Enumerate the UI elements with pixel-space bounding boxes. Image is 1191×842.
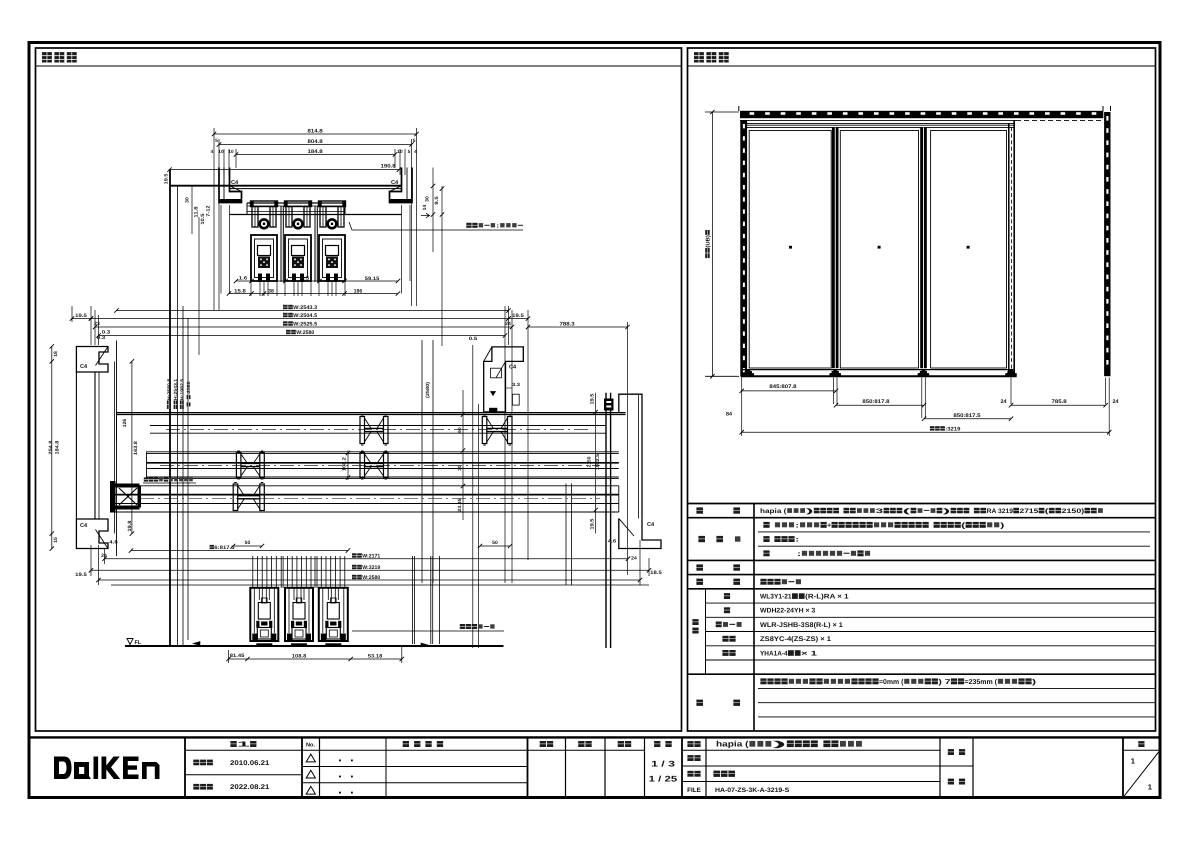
svg-text:6:817.5: 6:817.5 xyxy=(214,545,235,551)
svg-text:186: 186 xyxy=(354,288,363,294)
middle: bottom dim 817.5 xyxy=(131,550,348,552)
svg-text:163.8: 163.8 xyxy=(133,441,139,455)
DAIKEN logo letter i xyxy=(94,757,99,780)
svg-text:): ) xyxy=(943,508,951,515)
svg-text:C4: C4 xyxy=(647,522,655,528)
svg-text:850:817.5: 850:817.5 xyxy=(953,413,980,419)
front view: door panel 1 inner border xyxy=(749,131,831,369)
title: page field xyxy=(1138,741,1144,747)
title block top border xyxy=(29,736,1160,738)
middle: hanger bowtie bar2 left xyxy=(236,453,241,478)
front view: rail white dash marks xyxy=(750,112,755,115)
svg-text:(UB): (UB) xyxy=(705,235,711,248)
svg-text:No.: No. xyxy=(306,743,315,749)
svg-text:ZS8YC-4(ZS-ZS) × 1: ZS8YC-4(ZS-ZS) × 1 xyxy=(760,636,831,643)
middle: bottom dim extension verticals xyxy=(90,545,92,576)
svg-text::: : xyxy=(797,551,801,558)
svg-text:): ) xyxy=(1032,678,1036,686)
svg-text:59.15: 59.15 xyxy=(365,276,380,282)
top assembly: trolley 3 side rollers xyxy=(320,207,326,228)
top assembly: dim 190.8 xyxy=(170,169,400,171)
top assembly: hanger trolley 3 top plate xyxy=(319,201,346,207)
svg-text:804.8: 804.8 xyxy=(308,139,323,145)
middle: bottom small dims 50 xyxy=(233,545,262,547)
spec table row: finish door panel xyxy=(763,522,769,528)
top assembly: trolley 1 center wheel xyxy=(260,219,269,228)
svg-text:126: 126 xyxy=(122,418,128,427)
svg-text:788.3: 788.3 xyxy=(560,321,575,327)
top assembly: gap lines between doors xyxy=(280,206,282,282)
svg-text:5: 5 xyxy=(215,138,218,144)
DAIKEN logo letter D xyxy=(54,757,72,780)
svg-text:W:2171: W:2171 xyxy=(362,553,380,559)
front view: door pull panel2 xyxy=(878,246,881,249)
front view: dim 845:807.8 xyxy=(742,390,836,392)
svg-text:19.5: 19.5 xyxy=(590,518,596,529)
bottom assembly: floor guide unit 1 xyxy=(250,588,278,641)
svg-text::3219: :3219 xyxy=(945,426,960,432)
middle: far right jamb profile xyxy=(619,394,642,518)
svg-text:60: 60 xyxy=(457,427,462,433)
svg-text:785.8: 785.8 xyxy=(1052,399,1067,405)
top assembly: door 3 bottom feet xyxy=(326,274,330,283)
middle: door end pull-in cap (black detail) xyxy=(110,481,116,513)
svg-text:0.5: 0.5 xyxy=(469,336,478,342)
svg-text:WDH22-24YH × 3: WDH22-24YH × 3 xyxy=(760,608,815,615)
top assembly: head channel lines xyxy=(170,185,402,187)
middle: left outer vertical dim xyxy=(51,346,53,548)
middle: door panel C plan lines xyxy=(111,485,619,487)
front view: overall width dim 3219 xyxy=(742,431,1109,433)
spec table row: remarks xyxy=(760,678,766,684)
svg-text:850:817.8: 850:817.8 xyxy=(862,399,889,405)
svg-text:4: 4 xyxy=(414,149,417,154)
svg-text:24: 24 xyxy=(1001,399,1007,405)
svg-text:7-12: 7-12 xyxy=(206,205,212,216)
top assembly: right side vertical dims xyxy=(432,168,434,253)
bottom assembly: floor guide unit 3 xyxy=(319,588,348,641)
middle: pocket leg extension verticals down to floor dims xyxy=(472,345,474,648)
top assembly: door 1 lower stem lines xyxy=(250,281,252,296)
front view: dim 850:817.5 xyxy=(924,418,1011,420)
svg-text:FILE: FILE xyxy=(687,787,702,794)
svg-text:0.3: 0.3 xyxy=(102,330,111,336)
spec table row: finish lighting xyxy=(763,536,769,542)
title: kaitei date xyxy=(193,784,199,790)
svg-text:108.8: 108.8 xyxy=(292,653,307,659)
svg-text:2150): 2150) xyxy=(1062,508,1085,515)
svg-text:18.5: 18.5 xyxy=(650,570,662,576)
svg-text:19.5: 19.5 xyxy=(75,572,87,578)
top assembly: trolley 2 side rollers xyxy=(286,207,292,228)
left panel title bar line xyxy=(36,65,682,67)
svg-text:19.8: 19.8 xyxy=(127,520,133,531)
title: mitsumori field xyxy=(687,755,693,761)
middle: door panel A plan lines xyxy=(150,425,606,427)
svg-text:C4: C4 xyxy=(80,364,88,370)
svg-text:): ) xyxy=(773,740,789,749)
title: department field xyxy=(948,779,954,785)
svg-text:2150: 2150 xyxy=(587,456,592,467)
spec table label column divider xyxy=(753,504,755,732)
leader: hanging door rail silver xyxy=(349,222,523,230)
DAIKEN logo letter K xyxy=(102,757,121,780)
spec table hinban sub column divider xyxy=(705,589,707,674)
svg-text:H:1982.5: H:1982.5 xyxy=(180,378,185,400)
middle: stacked top width dims xyxy=(117,310,509,312)
svg-text:845:807.8: 845:807.8 xyxy=(769,384,796,390)
top assembly: dim extension verticals xyxy=(213,128,215,310)
svg-text:254.8: 254.8 xyxy=(48,440,54,454)
svg-text:5: 5 xyxy=(413,138,416,144)
svg-text:1.6: 1.6 xyxy=(239,276,248,282)
svg-text:19.5: 19.5 xyxy=(75,313,87,319)
top assembly: trolley 1 side rollers xyxy=(252,207,258,228)
label SECTION (danmenzu) xyxy=(42,52,52,62)
svg-text:=235mm (: =235mm ( xyxy=(965,678,998,686)
svg-text:1: 1 xyxy=(237,740,250,749)
top assembly: lower dim row 1 xyxy=(236,280,398,282)
svg-text:1 / 25: 1 / 25 xyxy=(649,775,678,784)
top assembly: left wall profile C4 xyxy=(219,168,242,203)
svg-text:C4: C4 xyxy=(509,365,517,371)
middle: hanger bowtie bar1 right xyxy=(482,417,487,444)
svg-text:C4: C4 xyxy=(80,523,88,529)
front view: dim 850:817.8 xyxy=(836,404,924,406)
bottom assembly: floor guide unit 2 xyxy=(285,588,313,641)
svg-text:19.5: 19.5 xyxy=(590,393,596,404)
front view: door pull panel1 xyxy=(789,246,792,249)
middle: door panel B plan lines xyxy=(147,451,619,453)
middle: bottom stacked width dims xyxy=(105,558,629,560)
label FRONT (shoumenzu) xyxy=(694,52,704,62)
svg-text:W:3219: W:3219 xyxy=(362,565,380,571)
svg-text:15: 15 xyxy=(53,537,59,543)
svg-text:WLR-JSHB-3S8(R-L) × 1: WLR-JSHB-3S8(R-L) × 1 xyxy=(760,622,843,629)
svg-text:4.6: 4.6 xyxy=(608,539,617,545)
svg-text:0.3: 0.3 xyxy=(97,335,106,341)
middle: right mid vertical refs xyxy=(421,340,423,583)
svg-text::2580: :2580 xyxy=(186,381,191,395)
top assembly: dim 804.8 with 5 labels xyxy=(219,144,412,146)
svg-text:2010.06.21: 2010.06.21 xyxy=(230,760,270,767)
title: revision history header xyxy=(403,741,409,747)
top assembly: hanger rail band xyxy=(247,202,345,204)
middle: hanger bowtie bar2 mid xyxy=(360,453,365,478)
svg-text:190.8: 190.8 xyxy=(381,163,396,169)
front view: left height dimension line xyxy=(705,111,739,113)
top assembly: right wall profile C4 xyxy=(390,168,413,203)
middle: inner vertical dim 163.8 xyxy=(131,361,133,533)
middle: pocket vertical rails xyxy=(605,393,607,648)
svg-text:FL: FL xyxy=(135,640,142,646)
svg-text:YHA1A-4: YHA1A-4 xyxy=(760,650,788,657)
bottom assembly: small arrows on FL xyxy=(193,642,200,646)
top assembly: left side rotated labels xyxy=(185,197,191,203)
bottom assembly: reference line above floor rail xyxy=(111,584,649,586)
top assembly: door 2 bottom feet xyxy=(292,274,296,283)
svg-text:14: 14 xyxy=(422,204,428,210)
svg-text:2022.08.21: 2022.08.21 xyxy=(230,784,270,791)
front view: pocket stile white dash marks xyxy=(1106,116,1108,121)
middle: small vertical dim 60/30 xyxy=(462,390,464,520)
svg-text:814.8: 814.8 xyxy=(308,128,323,134)
svg-text:): ) xyxy=(1000,521,1004,529)
svg-text:30: 30 xyxy=(425,196,431,202)
svg-text:H:2580.8: H:2580.8 xyxy=(167,378,172,400)
top assembly: door 3 lower stem lines xyxy=(318,281,320,296)
front view: dim 785.8 and 24 labels xyxy=(1011,404,1106,406)
front view: door panel 3 inner border xyxy=(931,131,1007,369)
svg-text:24: 24 xyxy=(1113,399,1119,405)
svg-text:W:2580: W:2580 xyxy=(362,575,380,581)
right view panel frame xyxy=(688,48,1156,731)
front view: door pull panel3 xyxy=(967,246,970,249)
top assembly: door top section 1 xyxy=(251,235,277,281)
svg-text:) 7: ) 7 xyxy=(938,678,950,686)
spec table row: parts bottom rail xyxy=(760,579,766,585)
svg-text::: : xyxy=(496,224,500,230)
svg-text:5: 5 xyxy=(408,149,411,154)
svg-text:18: 18 xyxy=(53,351,59,357)
title: author field xyxy=(948,749,954,755)
front view: left stile of door group (black with white dashes) xyxy=(740,120,747,376)
svg-text:3: 3 xyxy=(876,508,884,515)
front view: meeting stile mullion 1 xyxy=(832,127,839,368)
svg-text:4: 4 xyxy=(211,149,214,154)
spec table row lines xyxy=(688,517,1156,519)
title: revision triangles xyxy=(306,754,315,762)
svg-text:RA 3219: RA 3219 xyxy=(987,508,1014,515)
svg-text:6.5: 6.5 xyxy=(301,276,310,282)
svg-text:W:2525.5: W:2525.5 xyxy=(293,321,317,327)
top assembly: door 2 lower stem lines xyxy=(284,281,286,296)
title: scale header and values xyxy=(654,741,660,747)
front view: bottom edge lines xyxy=(741,369,1015,371)
svg-text:50: 50 xyxy=(245,540,251,546)
bottom assembly: door stems above units xyxy=(252,556,254,588)
svg-text:50: 50 xyxy=(492,540,498,546)
top assembly: door top section 2 xyxy=(285,235,311,281)
svg-text:10.5: 10.5 xyxy=(200,213,206,224)
title block horizontal cell lines xyxy=(302,749,645,751)
top assembly: dim 184.8 with side labels xyxy=(236,154,395,156)
svg-text:hapia (: hapia ( xyxy=(716,740,749,749)
middle: left jamb top piece C4 xyxy=(76,347,108,373)
top assembly: hanger trolley 2 top plate xyxy=(285,201,312,207)
left view panel frame xyxy=(36,48,682,731)
svg-text:19.5: 19.5 xyxy=(512,313,524,319)
top assembly: door top section 3 xyxy=(319,235,345,281)
middle: long vertical reference lines left xyxy=(169,170,171,646)
middle: extra pocket verticals xyxy=(565,484,567,586)
title: zumei field xyxy=(687,771,693,777)
svg-text:): ) xyxy=(806,508,814,515)
bottom assembly: bottom dims xyxy=(229,658,402,660)
middle: pocket vertical dim 19.5 labels xyxy=(595,393,597,534)
svg-text:W:2580: W:2580 xyxy=(296,330,314,336)
front view: door panel 2 inner border xyxy=(840,131,918,369)
bottom assembly: leader floor rail label xyxy=(352,630,504,632)
svg-text::: : xyxy=(795,522,799,529)
svg-text:30: 30 xyxy=(457,465,462,471)
svg-text:=0mm (: =0mm ( xyxy=(879,678,904,686)
middle: track lines top pair xyxy=(117,412,626,414)
svg-text:HA-07-ZS-3K-A-3219-S: HA-07-ZS-3K-A-3219-S xyxy=(715,787,790,794)
right panel title bar line xyxy=(688,65,1156,67)
middle: hanger bowtie bar3 left xyxy=(233,484,238,511)
middle: dim extension verticals top xyxy=(71,306,73,322)
spec table labels xyxy=(696,507,703,513)
svg-text:15.8: 15.8 xyxy=(234,288,246,294)
middle: hanger bowtie bar1 mid xyxy=(360,417,365,444)
top assembly: lower dim row 2 xyxy=(229,293,398,295)
front view: rotated label UB height xyxy=(705,230,711,258)
front view: top hanger rail (black band) xyxy=(740,111,1103,118)
svg-text:184.8: 184.8 xyxy=(55,440,61,454)
top assembly: wall extension lines down xyxy=(220,205,222,294)
spec table row: finish frame xyxy=(763,550,769,556)
svg-text:× 1: × 1 xyxy=(801,650,817,657)
middle: left jamb bottom piece C4 xyxy=(76,519,108,549)
top assembly: dim 814.8 xyxy=(214,133,417,135)
front view: floor guide ziggurat feet xyxy=(743,369,754,375)
svg-text:+: + xyxy=(827,522,831,529)
title: revision dots xyxy=(339,760,341,762)
front view: extension lines below xyxy=(741,378,743,437)
svg-text:1982.5: 1982.5 xyxy=(595,454,600,470)
middle: right pocket jamb top piece xyxy=(484,347,524,412)
spec table outline top xyxy=(688,503,1156,505)
svg-text:W:2504.5: W:2504.5 xyxy=(293,313,317,319)
front view: right stile of door group xyxy=(1008,123,1010,374)
svg-text:hapia (: hapia ( xyxy=(760,508,787,515)
top assembly: door 1 bottom feet xyxy=(258,274,262,283)
middle: label hikido cap xyxy=(144,477,148,481)
svg-text:38: 38 xyxy=(268,288,274,294)
middle: rotated height labels xyxy=(167,378,172,409)
middle: left jamb channel verticals xyxy=(94,372,96,519)
DAIKEN logo letter E xyxy=(123,757,139,780)
svg-text:53.18: 53.18 xyxy=(368,653,383,659)
svg-text:3.3: 3.3 xyxy=(512,382,521,387)
svg-text:W:2543.3: W:2543.3 xyxy=(293,305,317,311)
svg-text:11.8: 11.8 xyxy=(194,206,200,217)
svg-text:30: 30 xyxy=(185,197,191,203)
svg-text:24: 24 xyxy=(631,556,637,562)
middle: rotated label 108.2 xyxy=(347,451,349,481)
svg-text:H:2543.1: H:2543.1 xyxy=(173,378,178,400)
top assembly: trolley 3 center wheel xyxy=(328,219,337,228)
svg-text:108.2: 108.2 xyxy=(342,457,348,471)
svg-text:9.5: 9.5 xyxy=(434,196,440,205)
svg-text:23.45: 23.45 xyxy=(457,498,462,512)
front view: pocket-side right stile (black with white dashes) xyxy=(1104,112,1110,376)
svg-text:1 / 3: 1 / 3 xyxy=(651,760,675,769)
top assembly: hanger trolley 1 top plate xyxy=(251,201,278,207)
svg-text:184.8: 184.8 xyxy=(308,149,323,155)
DAIKEN logo letter a xyxy=(74,762,91,779)
front view: line under rail xyxy=(740,119,1016,121)
DAIKEN logo letter n xyxy=(142,762,160,779)
svg-text:2715: 2715 xyxy=(1020,508,1039,515)
title: name field xyxy=(687,741,693,747)
bottom assembly: floor line FL xyxy=(125,645,504,647)
front view: rail end ticks xyxy=(738,106,740,111)
svg-text:19.5: 19.5 xyxy=(164,173,169,184)
front view: meeting stile mullion 2 xyxy=(920,127,927,368)
title block verticals xyxy=(184,737,186,797)
svg-text:(2580): (2580) xyxy=(425,381,430,398)
svg-text:1: 1 xyxy=(1131,757,1135,766)
svg-text:1: 1 xyxy=(1148,783,1152,792)
title: approval headers xyxy=(540,741,546,747)
svg-text:81.45: 81.45 xyxy=(230,653,245,659)
title: seitei date xyxy=(193,760,199,766)
svg-text:4.8: 4.8 xyxy=(109,540,118,546)
svg-text:(R-L)RA × 1: (R-L)RA × 1 xyxy=(805,593,849,600)
top assembly: trolley 2 center wheel xyxy=(294,219,303,228)
svg-text:84: 84 xyxy=(726,412,732,418)
middle: pocket mouth end cap (black) xyxy=(604,399,614,411)
title: dai 1 han header xyxy=(230,741,236,747)
svg-text::: : xyxy=(795,537,799,544)
bottom assembly: right vertical refs xyxy=(411,556,413,644)
front view: door group top edge double line xyxy=(741,124,1014,126)
svg-text:WL3Y1-21: WL3Y1-21 xyxy=(760,593,792,600)
